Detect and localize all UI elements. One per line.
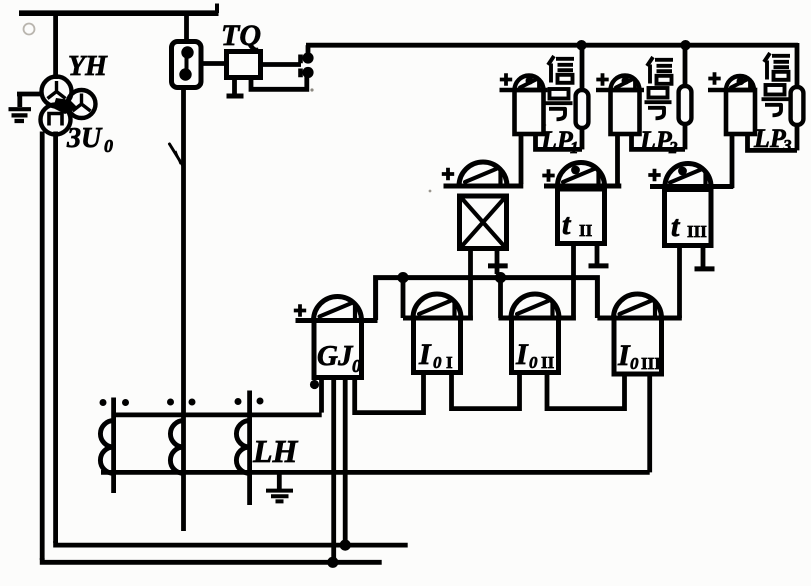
wire (LP2 lower lead) [683, 123, 688, 150]
wire (TQ bottom loop to lower pin) [251, 76, 307, 89]
time relay tIII dome [665, 164, 711, 187]
polarity + (time relay tIII) [648, 169, 660, 181]
wire (GJ0 leg 4 step to I0I) [355, 372, 424, 412]
wire (tII baseline) [544, 184, 621, 189]
wire (GJ0 baseline) [296, 318, 378, 323]
wire (signal relay 2 to LP2) [632, 134, 686, 149]
wire (+ to signal relay 2) [596, 88, 644, 92]
coil TQ (trip coil) [227, 52, 261, 78]
bus (top horizontal busbar) [19, 10, 219, 16]
polarity + (signal relay 1) [500, 73, 512, 85]
wire (3U0 line B, left inner vertical) [53, 132, 58, 544]
wire (+ rail drop to LP1) [580, 45, 585, 92]
relay I0I body [414, 318, 461, 373]
wire (signal relay 3 to tIII) [730, 134, 735, 188]
node (junction at LP1) [576, 40, 586, 50]
link LP3 (strap) [791, 87, 804, 125]
polarity + (signal relay 2) [596, 73, 608, 85]
wire (bus to connector XB) [184, 16, 189, 42]
svg-text:GJ: GJ [317, 340, 354, 372]
terminal bar (tII contact) [589, 263, 609, 268]
polarity + (relay GJ0) [294, 304, 306, 316]
current transformer LH phase B [170, 421, 183, 474]
current transformer LH phase C [247, 391, 252, 506]
wire (I0I baseline) [403, 316, 473, 321]
middle relay crossed box [460, 196, 507, 249]
svg-text:0: 0 [433, 353, 442, 372]
polarity + (middle relay) [442, 168, 454, 180]
svg-text:II: II [579, 221, 593, 240]
label 信 (unit 3) [764, 53, 790, 80]
node (bus to I0I) [397, 272, 408, 283]
middle relay dome [459, 162, 507, 186]
wire (tIII baseline) [650, 184, 733, 189]
wire (3U0 bus lower) [42, 558, 382, 562]
svg-text:0: 0 [352, 356, 361, 376]
wire (signal relay 2 to tII) [615, 134, 620, 188]
wire (GJ0 leg 2 to lower bus) [331, 378, 336, 563]
wire (I0III baseline) [597, 316, 681, 321]
wire (tIII right leg) [701, 246, 706, 269]
node (middle relay to relay bus) [495, 272, 506, 283]
wire (I0II right leg step to I0III) [547, 372, 625, 408]
stray pen mark [170, 144, 185, 168]
terminal stub under TQ [232, 78, 237, 95]
wire (node down to I0II baseline) [498, 277, 503, 318]
relay I0II dome [511, 294, 559, 318]
label 号 (unit 1) [550, 89, 569, 99]
relay I0III body [614, 318, 662, 374]
ground (YH neutral) [9, 109, 32, 121]
wire (+ rail drop to LP2) [683, 45, 688, 88]
relay I0II body [512, 318, 559, 373]
svg-text:0: 0 [104, 136, 113, 156]
wire (GJ0 leg 1) [319, 378, 324, 413]
link LP1 (strap) [576, 90, 589, 128]
wire (middle relay right leg) [495, 249, 500, 275]
wire (I0II baseline) [499, 316, 576, 321]
wire (LH ground stub) [277, 475, 282, 490]
wire (bus to YH primary) [53, 13, 58, 79]
wire (middle relay baseline) [444, 184, 524, 189]
wire (+ rail corner drop to LP3) [795, 43, 800, 88]
node (GJ0 coil to lower bus) [327, 557, 338, 568]
wire (connector to TQ coil) [201, 61, 228, 66]
polarity + (time relay tII) [542, 169, 554, 181]
svg-text:LP: LP [753, 124, 787, 153]
svg-text:0: 0 [630, 354, 639, 373]
link LP2 (strap) [679, 86, 692, 124]
time relay tIII body [665, 190, 712, 246]
svg-text:III: III [687, 222, 707, 241]
wire (YH neutral to ground) [17, 94, 42, 107]
wire (+ rail, top right horizontal) [306, 43, 798, 48]
wire (signal relay 1 to LP1) [536, 134, 583, 149]
wire (TQ right terminal) [261, 62, 302, 67]
wire (CT secondary top wire) [112, 412, 322, 417]
wire (+ to signal relay 3) [708, 88, 756, 92]
svg-text:3U: 3U [66, 123, 103, 154]
wire (+ to signal relay 1) [500, 88, 548, 92]
svg-text:LP: LP [639, 126, 673, 155]
svg-text:TQ: TQ [221, 19, 261, 52]
relay I0I dome [413, 294, 461, 318]
wire (tII left leg through bus to I0II) [571, 244, 576, 321]
connector XB (test jack, left) [172, 42, 202, 88]
svg-text:I: I [617, 339, 631, 372]
current transformer LH phase A [111, 398, 116, 494]
svg-text:LP: LP [540, 126, 574, 155]
svg-text:II: II [541, 353, 555, 372]
svg-text:2: 2 [668, 138, 678, 157]
terminal bar (middle relay contact) [488, 263, 508, 268]
svg-text:I: I [515, 338, 529, 371]
signal relay XJ3 [726, 76, 754, 90]
node (junction at LP2) [680, 40, 690, 50]
connector pins (right of TQ) [298, 55, 303, 78]
wire (LP3 lower lead) [795, 124, 800, 151]
wire (I0I right leg step to I0II) [452, 372, 520, 408]
wire (tII right leg) [595, 244, 600, 266]
paper speck [24, 24, 35, 35]
time relay tII dome [558, 162, 605, 186]
label 信 (unit 1) [548, 56, 574, 83]
wire (tIII left leg to I0III baseline) [677, 246, 682, 319]
node (GJ0 bottom left) [310, 380, 319, 389]
wire (I0III right leg to CT return) [647, 374, 652, 472]
svg-text:0: 0 [529, 353, 538, 372]
time relay tII body [558, 189, 605, 244]
signal relay XJ2 [611, 76, 640, 91]
signal relay XJ1 [515, 76, 544, 91]
wire (middle relay left leg to I0I) [468, 249, 473, 321]
wire (node down to I0I baseline) [401, 277, 406, 318]
wire (connector down to CT area, negative rail) [181, 88, 186, 532]
terminal bar (tIII contact) [695, 266, 715, 271]
relay GJ0 body [314, 321, 362, 378]
wire (upper pin riser to + rail) [306, 45, 311, 56]
svg-text:LH: LH [252, 433, 299, 469]
relay GJ0 dome [314, 297, 362, 321]
wire (CT secondary bottom return) [101, 470, 650, 475]
svg-text:I: I [418, 338, 432, 371]
voltage transformer YH [42, 77, 72, 107]
wire (signal relay 1 to middle relay) [519, 134, 524, 184]
node (GJ0 coil to upper bus) [340, 540, 351, 551]
ground (LH neutral) [266, 491, 293, 502]
svg-text:I: I [446, 353, 453, 372]
svg-text:III: III [641, 354, 661, 373]
svg-text:1: 1 [570, 138, 579, 157]
wire (signal relay 3 to LP3) [748, 134, 798, 150]
polarity + (signal relay 3) [708, 72, 720, 84]
label 号 (unit 2) [649, 88, 668, 98]
relay I0III dome [614, 294, 662, 318]
label 信 (unit 2) [647, 57, 673, 84]
label 号 (unit 3) [766, 85, 785, 95]
wire (GJ0 leg 3 to upper bus) [343, 378, 348, 546]
wire (3U0 line A, left outer vertical) [40, 132, 45, 561]
wire (3U0 bus upper) [56, 541, 408, 545]
svg-text:3: 3 [782, 136, 792, 155]
wire (relay row bus) [376, 278, 598, 320]
wire (LP1 lower lead) [580, 127, 585, 150]
svg-text:YH: YH [68, 51, 108, 82]
